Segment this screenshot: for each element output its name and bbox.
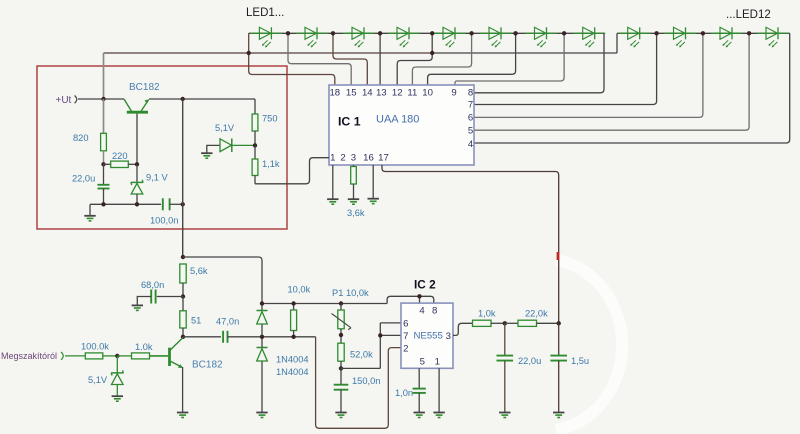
svg-text:5,1V: 5,1V <box>88 375 108 385</box>
svg-text:11: 11 <box>407 88 417 99</box>
svg-text:220: 220 <box>112 151 128 161</box>
svg-text:5: 5 <box>420 357 425 368</box>
svg-text:22,0u: 22,0u <box>518 356 541 366</box>
svg-text:1,0n: 1,0n <box>395 388 413 398</box>
svg-text:4: 4 <box>468 139 474 150</box>
svg-text:1,0k: 1,0k <box>478 309 496 319</box>
svg-text:22,0k: 22,0k <box>525 309 548 319</box>
svg-text:8: 8 <box>468 88 473 99</box>
svg-text:BC182: BC182 <box>192 360 223 371</box>
svg-text:100,0n: 100,0n <box>150 216 178 226</box>
svg-text:5,1V: 5,1V <box>215 123 235 133</box>
svg-text:2: 2 <box>340 153 345 164</box>
svg-text:4: 4 <box>419 306 425 317</box>
svg-text:1,1k: 1,1k <box>262 159 280 169</box>
svg-text:2: 2 <box>403 344 408 355</box>
svg-text:5: 5 <box>468 126 473 137</box>
svg-text:P1 10,0k: P1 10,0k <box>332 288 369 298</box>
svg-text:+Ut: +Ut <box>56 95 72 106</box>
svg-text:...LED12: ...LED12 <box>726 9 771 21</box>
svg-text:1,5u: 1,5u <box>571 356 589 366</box>
svg-text:18: 18 <box>329 88 340 99</box>
svg-text:13: 13 <box>376 88 387 99</box>
svg-text:15: 15 <box>346 88 357 99</box>
svg-text:UAA 180: UAA 180 <box>376 114 419 126</box>
svg-text:1N4004: 1N4004 <box>276 355 309 365</box>
svg-text:68,0n: 68,0n <box>141 280 164 290</box>
svg-text:7: 7 <box>468 100 473 111</box>
svg-text:6: 6 <box>468 113 473 124</box>
svg-text:1: 1 <box>435 357 440 368</box>
svg-text:9: 9 <box>451 88 456 99</box>
svg-text:14: 14 <box>362 88 373 99</box>
svg-text:52,0k: 52,0k <box>350 350 373 360</box>
svg-text:16: 16 <box>363 153 374 164</box>
svg-text:10: 10 <box>422 88 433 99</box>
svg-text:IC 2: IC 2 <box>414 278 436 292</box>
svg-text:9,1 V: 9,1 V <box>146 173 169 183</box>
svg-text:3,6k: 3,6k <box>347 208 365 218</box>
svg-text:1: 1 <box>330 153 335 164</box>
svg-text:1N4004: 1N4004 <box>276 367 309 377</box>
svg-text:10,0k: 10,0k <box>288 285 311 295</box>
svg-text:150,0n: 150,0n <box>352 376 380 386</box>
svg-text:3: 3 <box>446 331 451 342</box>
svg-text:NE555: NE555 <box>414 331 443 342</box>
svg-text:7: 7 <box>403 331 408 342</box>
svg-text:1.0k: 1.0k <box>135 342 153 352</box>
svg-text:47,0n: 47,0n <box>216 317 239 327</box>
svg-text:LED1...: LED1... <box>246 7 284 19</box>
svg-text:8: 8 <box>432 306 437 317</box>
svg-text:750: 750 <box>262 114 278 124</box>
svg-text:Megszakítóról: Megszakítóról <box>1 351 57 361</box>
svg-text:100.0k: 100.0k <box>81 342 109 352</box>
svg-text:5,6k: 5,6k <box>190 266 208 276</box>
svg-text:12: 12 <box>392 88 403 99</box>
svg-text:3: 3 <box>351 153 356 164</box>
svg-text:820: 820 <box>73 133 89 143</box>
svg-text:17: 17 <box>378 153 389 164</box>
svg-text:51: 51 <box>191 316 201 326</box>
svg-text:22,0u: 22,0u <box>72 174 95 184</box>
svg-text:BC182: BC182 <box>129 82 160 93</box>
svg-text:6: 6 <box>403 319 408 330</box>
svg-text:IC 1: IC 1 <box>338 115 361 129</box>
